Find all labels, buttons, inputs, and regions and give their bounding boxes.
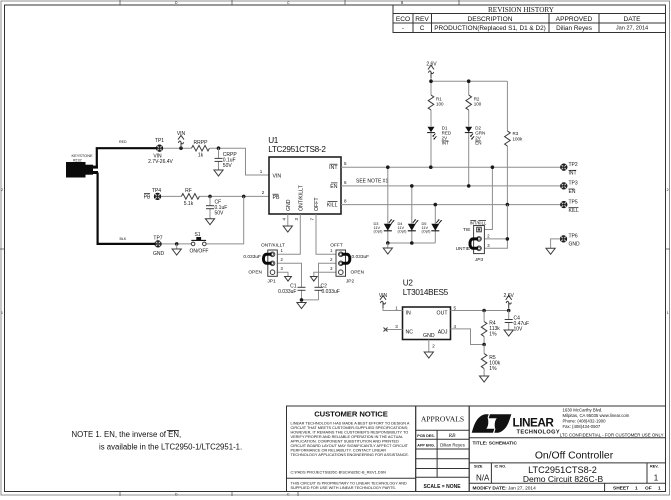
- svg-text:OFFT: OFFT: [314, 197, 320, 211]
- svg-text:APPROVALS: APPROVALS: [421, 415, 464, 424]
- svg-text:1k: 1k: [198, 153, 204, 159]
- svg-text:1%: 1%: [489, 332, 497, 338]
- svg-text:INT: INT: [329, 165, 338, 171]
- svg-text:PCB DES.: PCB DES.: [417, 434, 434, 438]
- svg-text:TP1: TP1: [155, 138, 164, 144]
- svg-text:R3: R3: [513, 131, 519, 136]
- svg-text:2.7V-26.4V: 2.7V-26.4V: [148, 159, 173, 165]
- svg-text:APPLICATION. COMPONENT SUBSTI: APPLICATION. COMPONENT SUBSTITUTION AND …: [291, 440, 400, 444]
- svg-text:Dilian Reyes: Dilian Reyes: [440, 443, 465, 448]
- svg-text:is available in the LTC2950-1/: is available in the LTC2950-1/LTC2951-1.: [99, 443, 242, 452]
- svg-text:VIN: VIN: [177, 131, 186, 137]
- svg-text:APPROVED: APPROVED: [556, 16, 593, 23]
- svg-text:100: 100: [436, 102, 444, 107]
- svg-text:100: 100: [474, 102, 482, 107]
- svg-text:Milpitas, CA 95035 www.linea: Milpitas, CA 95035 www.linear.com: [563, 413, 630, 418]
- svg-text:JP3: JP3: [474, 257, 484, 263]
- svg-text:Fax: (408)434-0507: Fax: (408)434-0507: [563, 424, 601, 429]
- svg-text:TP7: TP7: [153, 236, 162, 242]
- svg-text:MODIFY DATE:: MODIFY DATE:: [473, 486, 508, 492]
- svg-text:LINEAR: LINEAR: [513, 416, 555, 430]
- svg-text:JP2: JP2: [346, 278, 355, 284]
- svg-text:VIN: VIN: [273, 174, 282, 180]
- svg-text:DESCRIPTION: DESCRIPTION: [467, 16, 512, 23]
- svg-text:CIRCUIT BOARD LAYOUT MAY SIGNI: CIRCUIT BOARD LAYOUT MAY SIGNIFICANTLY A…: [291, 444, 409, 448]
- svg-text:2.6V: 2.6V: [504, 293, 515, 299]
- svg-text:EN: EN: [475, 141, 481, 146]
- svg-text:LT3014BES5: LT3014BES5: [403, 288, 449, 297]
- svg-text:TP6: TP6: [569, 234, 578, 240]
- svg-text:IC NO.: IC NO.: [495, 464, 507, 468]
- svg-text:DATE: DATE: [623, 16, 641, 23]
- svg-text:N/A: N/A: [476, 473, 490, 482]
- svg-text:UNTIE: UNTIE: [456, 246, 470, 252]
- svg-text:TP3: TP3: [569, 181, 578, 187]
- svg-text:RED: RED: [119, 140, 127, 144]
- svg-text:APP ENG.: APP ENG.: [417, 443, 435, 447]
- svg-text:OPEN: OPEN: [248, 270, 262, 276]
- svg-text:BLK: BLK: [120, 237, 127, 241]
- svg-text:SHEET: SHEET: [613, 486, 629, 492]
- svg-text:ECO: ECO: [396, 16, 410, 23]
- svg-text:1630 McCarthy Blvd.: 1630 McCarthy Blvd.: [563, 408, 603, 413]
- svg-text:OF: OF: [645, 486, 652, 492]
- svg-text:1: 1: [635, 486, 638, 492]
- svg-text:SUPPLIED FOR USE WITH LINEAR T: SUPPLIED FOR USE WITH LINEAR TECHNOLOGY …: [291, 486, 396, 490]
- svg-text:IN: IN: [406, 311, 411, 317]
- svg-text:HOWEVER, IT REMAINS THE CUSTOM: HOWEVER, IT REMAINS THE CUSTOMER'S RESPO…: [291, 431, 409, 435]
- svg-text:C:\PADS PROJECTS\826C-B\SCH\82: C:\PADS PROJECTS\826C-B\SCH\826C-B_REV1.…: [291, 470, 387, 474]
- svg-text:RF: RF: [185, 188, 192, 194]
- svg-text:#232: #232: [73, 157, 82, 162]
- svg-text:INT/KILL: INT/KILL: [470, 220, 487, 225]
- svg-text:SEE NOTE #1: SEE NOTE #1: [356, 178, 388, 184]
- svg-text:REV: REV: [415, 16, 429, 23]
- svg-text:S1: S1: [194, 232, 200, 238]
- svg-text:PRODUCTION(Replaced S1, D1 & D: PRODUCTION(Replaced S1, D1 & D2): [434, 25, 546, 32]
- svg-text:0.033uF: 0.033uF: [352, 254, 370, 260]
- svg-text:Jan 27, 2014: Jan 27, 2014: [508, 486, 536, 492]
- svg-text:CIRCUIT THAT MEETS CUSTOMER-SU: CIRCUIT THAT MEETS CUSTOMER-SUPPLIED SPE…: [291, 426, 409, 430]
- svg-text:EN: EN: [330, 184, 337, 190]
- svg-text:Phone: (408)432-1900: Phone: (408)432-1900: [563, 419, 607, 424]
- svg-text:SCALE = NONE: SCALE = NONE: [423, 484, 461, 490]
- svg-text:CUSTOMER NOTICE: CUSTOMER NOTICE: [314, 409, 388, 418]
- svg-text:GND: GND: [569, 242, 581, 248]
- svg-text:VIN: VIN: [379, 293, 388, 299]
- svg-text:RRPP: RRPP: [194, 140, 209, 146]
- svg-text:TECHNOLOGY APPLICATIONS ENGINE: TECHNOLOGY APPLICATIONS ENGINEERING FOR …: [291, 453, 410, 457]
- svg-text:TECHNOLOGY: TECHNOLOGY: [517, 429, 560, 435]
- svg-text:1: 1: [654, 473, 659, 482]
- svg-text:1%: 1%: [489, 366, 497, 372]
- svg-text:GND: GND: [423, 333, 435, 339]
- svg-text:VERIFY PROPER AND RELIABLE OPE: VERIFY PROPER AND RELIABLE OPERATION IN …: [291, 435, 404, 439]
- svg-text:OPEN: OPEN: [351, 270, 365, 276]
- svg-text:LINEAR TECHNOLOGY HAS MADE A B: LINEAR TECHNOLOGY HAS MADE A BEST EFFORT…: [291, 422, 410, 426]
- svg-text:GND: GND: [153, 251, 165, 257]
- svg-text:Jan 27, 2014: Jan 27, 2014: [616, 26, 648, 32]
- svg-text:REV.: REV.: [650, 464, 659, 468]
- svg-text:Demo Circuit 826C-B: Demo Circuit 826C-B: [523, 474, 604, 484]
- svg-text:RB: RB: [448, 433, 456, 439]
- svg-text:50V: 50V: [223, 163, 233, 169]
- svg-text:THIS CIRCUIT IS PROPRIETARY TO: THIS CIRCUIT IS PROPRIETARY TO LINEAR TE…: [291, 482, 407, 486]
- svg-text:(Opt): (Opt): [398, 229, 408, 234]
- svg-text:2: 2: [1, 188, 3, 192]
- svg-text:ON/OFF: ON/OFF: [190, 249, 209, 255]
- svg-text:LTC CONFIDENTIAL - FOR CUSTOME: LTC CONFIDENTIAL - FOR CUSTOMER USE ONLY: [560, 432, 664, 437]
- svg-text:(Opt): (Opt): [422, 229, 432, 234]
- svg-text:GND: GND: [286, 199, 292, 211]
- svg-text:100k: 100k: [513, 136, 524, 141]
- svg-text:PB: PB: [273, 195, 280, 201]
- svg-text:OUT: OUT: [437, 311, 449, 317]
- svg-text:-: -: [402, 25, 404, 32]
- svg-text:2: 2: [667, 188, 669, 192]
- svg-text:TP4: TP4: [152, 188, 161, 194]
- svg-text:SIZE: SIZE: [474, 464, 483, 468]
- svg-text:NOTE 1. EN, the inverse of EN,: NOTE 1. EN, the inverse of EN,: [72, 430, 182, 439]
- svg-text:PERFORMANCE OR RELIABILITY. C: PERFORMANCE OR RELIABILITY. CONTACT LINE…: [291, 449, 387, 453]
- svg-text:1: 1: [1, 311, 3, 315]
- svg-text:2.6V: 2.6V: [426, 62, 437, 68]
- svg-text:TP5: TP5: [569, 199, 578, 205]
- svg-text:INT: INT: [442, 141, 450, 146]
- svg-text:0.033uF: 0.033uF: [243, 254, 261, 260]
- svg-text:KILL: KILL: [569, 208, 580, 214]
- svg-text:PB: PB: [144, 194, 151, 200]
- svg-text:10V: 10V: [514, 326, 524, 332]
- svg-text:EN: EN: [569, 189, 576, 195]
- svg-text:TITLE: SCHEMATIC: TITLE: SCHEMATIC: [473, 441, 518, 447]
- svg-text:LTC2951CTS8-2: LTC2951CTS8-2: [268, 145, 326, 154]
- svg-text:5.1k: 5.1k: [184, 201, 194, 207]
- svg-text:INT: INT: [569, 171, 577, 177]
- svg-text:50V: 50V: [215, 211, 225, 217]
- svg-text:U2: U2: [403, 278, 414, 287]
- svg-text:NC: NC: [406, 330, 414, 336]
- svg-text:U1: U1: [268, 136, 279, 145]
- svg-text:REVISION HISTORY: REVISION HISTORY: [488, 6, 555, 14]
- svg-text:ONT/KILLT: ONT/KILLT: [298, 184, 304, 211]
- svg-text:ADJ: ADJ: [438, 330, 448, 336]
- svg-text:Dilian Reyes: Dilian Reyes: [556, 25, 592, 32]
- svg-text:(Opt): (Opt): [374, 229, 384, 234]
- svg-text:TP2: TP2: [569, 162, 578, 168]
- svg-text:0.033uF: 0.033uF: [278, 289, 296, 295]
- svg-text:TIE: TIE: [463, 227, 470, 233]
- svg-text:JP1: JP1: [267, 278, 276, 284]
- svg-text:1: 1: [667, 311, 669, 315]
- svg-text:KILL: KILL: [327, 203, 338, 209]
- svg-text:1: 1: [658, 486, 661, 492]
- svg-text:C: C: [420, 25, 425, 32]
- svg-text:On/Off Controller: On/Off Controller: [535, 451, 614, 462]
- svg-text:0.033uF: 0.033uF: [322, 289, 340, 295]
